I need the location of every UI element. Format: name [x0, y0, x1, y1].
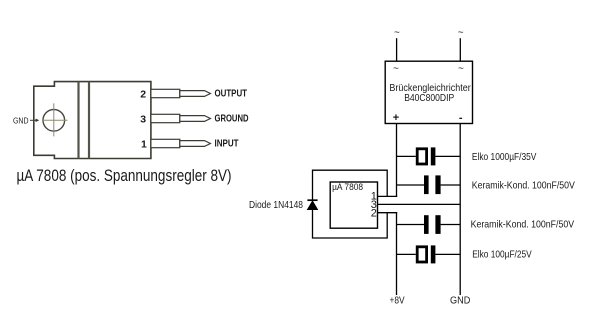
svg-text:B40C800DIP: B40C800DIP [404, 92, 454, 104]
pin 2 lead (OUTPUT) [151, 89, 211, 97]
svg-text:~: ~ [394, 28, 400, 39]
svg-text:~: ~ [393, 64, 399, 75]
AC input wire right [458, 28, 464, 62]
capacitor C4 Elko 100µF/25V [397, 245, 461, 263]
svg-text:~: ~ [458, 64, 464, 75]
svg-text:2: 2 [371, 208, 377, 220]
svg-text:µA 7808 (pos. Spannungsregler: µA 7808 (pos. Spannungsregler 8V) [17, 167, 232, 185]
svg-text:Diode 1N4148: Diode 1N4148 [249, 199, 303, 211]
tab/body divider lines [79, 82, 90, 159]
svg-text:3: 3 [140, 113, 146, 125]
wire: GND rail (bridge - down to GND terminal) [459, 124, 461, 296]
wire: protection loop top (diode cathode to input) [313, 170, 388, 200]
capacitor C2 Keramik-Kond. 100nF/50V [397, 175, 461, 194]
svg-text:2: 2 [140, 88, 146, 100]
mounting hole [42, 103, 68, 136]
regulator U2 µA 7808 box [330, 182, 377, 228]
svg-text:GND: GND [450, 295, 471, 307]
svg-text:+8V: +8V [390, 295, 405, 307]
capacitor C1 Elko 1000µF/35V [397, 147, 461, 165]
capacitor C3 Keramik-Kond. 100nF/50V [397, 215, 461, 234]
wire: + rail upper (bridge + to regulator input node) [396, 124, 398, 198]
wire: protection loop bottom (diode anode to output) [313, 210, 388, 239]
pin 3 lead (GROUND) [151, 114, 211, 122]
IC package U1 µA7808 TO-220 outline [34, 82, 151, 159]
wire: U2 pin3 to GND rail [378, 203, 461, 205]
wire: U2 pin1 to input node [378, 195, 398, 197]
svg-text:µA 7808: µA 7808 [332, 182, 363, 192]
svg-text:Elko 1000µF/35V: Elko 1000µF/35V [472, 151, 537, 163]
bridge rectifier B1 box [385, 61, 472, 123]
AC input wire left [394, 28, 400, 62]
wire: U2 pin2 to output rail [378, 212, 398, 214]
pin 1 lead (INPUT) [151, 139, 211, 147]
diode D1 1N4148 [307, 200, 317, 209]
svg-text:GND: GND [13, 117, 29, 126]
svg-text:INPUT: INPUT [215, 138, 239, 150]
svg-text:-: - [459, 112, 463, 124]
svg-text:~: ~ [458, 28, 464, 39]
svg-text:+: + [393, 112, 399, 124]
svg-text:GROUND: GROUND [215, 113, 249, 125]
GND pin label with arrow [13, 117, 39, 126]
svg-text:1: 1 [141, 138, 147, 150]
svg-text:Keramik-Kond. 100nF/50V: Keramik-Kond. 100nF/50V [471, 218, 574, 230]
wire: output rail (+8V) [396, 212, 398, 295]
svg-text:Elko 100µF/25V: Elko 100µF/25V [472, 249, 532, 261]
svg-text:Keramik-Kond. 100nF/50V: Keramik-Kond. 100nF/50V [472, 179, 575, 191]
svg-text:OUTPUT: OUTPUT [215, 88, 248, 100]
